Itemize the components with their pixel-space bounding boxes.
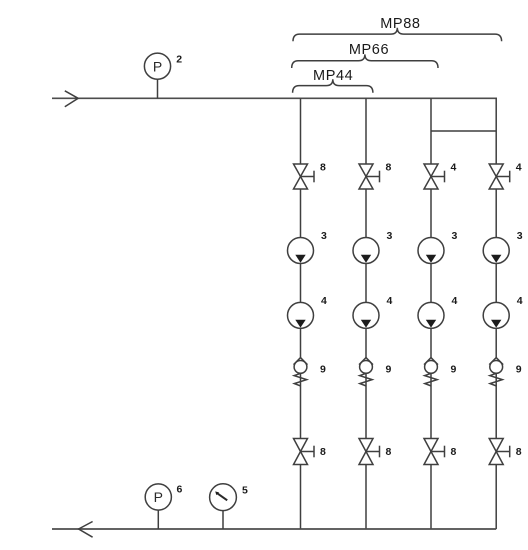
svg-text:5: 5: [242, 485, 248, 497]
brace group MP44: [293, 79, 373, 93]
wire: [365, 264, 367, 303]
pump 3 (branch 2 upper pump): [353, 238, 379, 264]
wire: [365, 328, 367, 357]
svg-text:8: 8: [386, 446, 392, 458]
wire: [430, 264, 432, 303]
pressure gauge P (item 2): [144, 53, 170, 98]
pressure gauge P (item 6): [145, 484, 171, 529]
brace group MP88: [293, 28, 502, 42]
svg-text:4: 4: [452, 295, 458, 307]
svg-text:P: P: [154, 489, 163, 505]
pump 4 (branch 2 lower pump): [353, 302, 379, 328]
wire: [365, 189, 367, 238]
wire: branch 2 drop from header: [365, 98, 367, 164]
svg-text:MP66: MP66: [349, 42, 389, 58]
svg-text:2: 2: [176, 54, 182, 66]
svg-text:P: P: [153, 58, 162, 74]
pump 3 (branch 4 upper pump): [483, 238, 509, 264]
wire: [365, 373, 367, 438]
svg-text:8: 8: [516, 446, 522, 458]
svg-text:4: 4: [451, 162, 457, 174]
wire: [495, 373, 497, 438]
svg-text:9: 9: [516, 364, 522, 376]
flow arrow inlet (points right): [65, 91, 78, 107]
svg-text:4: 4: [387, 295, 393, 307]
svg-text:8: 8: [320, 446, 326, 458]
pump 4 (branch 1 lower pump): [288, 302, 314, 328]
svg-text:6: 6: [177, 484, 183, 496]
svg-text:4: 4: [517, 295, 523, 307]
wire: [495, 465, 497, 530]
check valve 9 (branch 2 spring-loaded): [359, 358, 373, 386]
valve 8 (branch 2 inlet shut-off): [359, 164, 380, 189]
check valve 9 (branch 3 spring-loaded): [424, 358, 438, 386]
svg-text:4: 4: [516, 162, 522, 174]
wire: [365, 465, 367, 530]
wire: [495, 264, 497, 303]
wire: [430, 373, 432, 438]
svg-text:8: 8: [451, 446, 457, 458]
valve 4 (branch 4 inlet shut-off): [489, 164, 510, 189]
check valve 9 (branch 4 spring-loaded): [489, 358, 503, 386]
svg-text:8: 8: [386, 162, 392, 174]
wire: branch 3 drop from header: [430, 98, 432, 164]
wire: [300, 373, 302, 438]
pump 4 (branch 3 lower pump): [418, 302, 444, 328]
check valve 9 (branch 1 spring-loaded): [294, 358, 308, 386]
wire: branch 1 drop from header: [300, 98, 302, 164]
svg-text:8: 8: [320, 162, 326, 174]
svg-text:9: 9: [320, 364, 326, 376]
svg-text:3: 3: [387, 230, 393, 242]
wire: branch 4 drop from header: [495, 98, 497, 164]
wire: [430, 189, 432, 238]
wire: header tie between branch 3 and branch 4: [431, 130, 496, 132]
pump 3 (branch 1 upper pump): [288, 238, 314, 264]
svg-text:3: 3: [517, 230, 523, 242]
valve 4 (branch 3 inlet shut-off): [424, 164, 445, 189]
wire: [495, 328, 497, 357]
wire: [430, 328, 432, 357]
valve 8 (branch 1 inlet shut-off): [294, 164, 315, 189]
dial gauge (item 5): [210, 484, 237, 529]
wire: [300, 189, 302, 238]
flow arrow outlet (points left): [79, 522, 93, 538]
valve 8 (branch 4 outlet shut-off): [489, 439, 510, 465]
wire: [300, 465, 302, 530]
wire: [300, 264, 302, 303]
wire: [430, 465, 432, 530]
svg-text:3: 3: [321, 230, 327, 242]
svg-text:3: 3: [452, 230, 458, 242]
svg-text:4: 4: [321, 295, 327, 307]
wire: [495, 189, 497, 238]
wire: bottom return header: [52, 528, 496, 530]
pump 4 (branch 4 lower pump): [483, 302, 509, 328]
svg-text:9: 9: [451, 364, 457, 376]
valve 8 (branch 2 outlet shut-off): [359, 439, 380, 465]
svg-text:MP88: MP88: [380, 16, 420, 32]
valve 8 (branch 1 outlet shut-off): [294, 439, 315, 465]
wire: [300, 328, 302, 357]
svg-text:9: 9: [386, 364, 392, 376]
valve 8 (branch 3 outlet shut-off): [424, 439, 445, 465]
svg-text:MP44: MP44: [313, 68, 353, 84]
wire: top supply header: [52, 97, 497, 99]
brace group MP66: [292, 54, 438, 68]
pump 3 (branch 3 upper pump): [418, 238, 444, 264]
